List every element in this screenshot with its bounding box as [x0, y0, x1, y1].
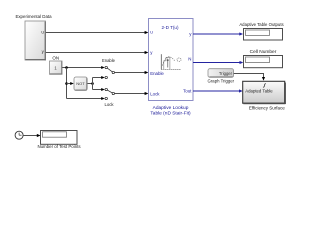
svg-text:Enable: Enable	[150, 71, 164, 76]
subsystem Graph Trigger	[208, 69, 235, 84]
svg-text:Adapted Table: Adapted Table	[245, 89, 273, 94]
wire NOT branch to Lock switch top input	[93, 88, 105, 91]
junction feeding NOT	[65, 82, 68, 85]
svg-text:Efficiency Surface: Efficiency Surface	[249, 105, 285, 110]
svg-text:Number of Test Points: Number of Test Points	[37, 144, 81, 149]
wire y : Experimental Data out2 to 2-D T(u) y input	[46, 51, 149, 54]
label Adaptive Lookup Table (nD Stair-Fit)	[150, 105, 191, 117]
wire NOT branch vertical	[92, 78, 94, 90]
wire NOT branch to Enable switch bottom input	[93, 76, 105, 79]
svg-text:Tout: Tout	[183, 89, 192, 94]
wire Enable switch output to block Enable port	[115, 71, 149, 74]
wire Lock switch output to block Lock port	[115, 92, 149, 95]
wire NOT output	[87, 83, 92, 85]
svg-text:2-D T(u): 2-D T(u)	[161, 25, 178, 30]
wire ON output to Enable switch top input	[62, 66, 105, 69]
svg-text:Adaptive Table Outputs: Adaptive Table Outputs	[239, 22, 283, 27]
display Adaptive Table Outputs	[239, 22, 283, 40]
svg-text:Adaptive Lookup: Adaptive Lookup	[153, 105, 189, 111]
svg-text:Trigger: Trigger	[219, 71, 233, 76]
display Cell Number	[244, 49, 283, 68]
subsystem Experimental Data	[15, 14, 52, 61]
manual switch Enable	[102, 58, 116, 79]
manual switch Lock	[104, 88, 114, 107]
svg-text:Experimental Data: Experimental Data	[15, 14, 52, 19]
wire N output to Cell Number	[193, 61, 243, 64]
junction NOT output branch	[91, 82, 94, 85]
icon stair-fit graph inside block	[161, 54, 181, 69]
svg-text:NOT: NOT	[76, 81, 85, 86]
constant ON	[50, 56, 63, 75]
block Adaptive Lookup Table (nD Stair-Fit)	[149, 19, 194, 101]
logical operator NOT	[74, 77, 87, 91]
svg-text:ON: ON	[52, 56, 59, 61]
wire Graph Trigger to Adapted Table trigger port	[234, 74, 266, 81]
svg-text:Lock: Lock	[104, 102, 114, 107]
scope Adapted Table	[243, 81, 286, 110]
wire to NOT input	[67, 82, 74, 85]
clock	[15, 131, 23, 139]
svg-text:Cell Number: Cell Number	[250, 49, 277, 55]
svg-text:Table (nD Stair-Fit): Table (nD Stair-Fit)	[150, 110, 191, 116]
svg-text:N: N	[188, 56, 191, 61]
wire clock to Number of Test Points	[23, 134, 40, 137]
display Number of Test Points	[37, 131, 81, 150]
wire ON branch to Lock switch bottom input	[67, 97, 105, 100]
wire u : Experimental Data out1 to 2-D T(u) u input	[46, 31, 149, 34]
wire Tout output to Adapted Table	[193, 89, 243, 92]
wire y output to Adaptive Table Outputs	[193, 32, 243, 35]
svg-text:Lock: Lock	[150, 92, 160, 97]
svg-text:Graph Trigger: Graph Trigger	[208, 79, 235, 84]
svg-text:Enable: Enable	[102, 58, 116, 63]
junction on ON wire at x66	[65, 66, 68, 69]
wire ON branch vertical down	[66, 68, 68, 99]
